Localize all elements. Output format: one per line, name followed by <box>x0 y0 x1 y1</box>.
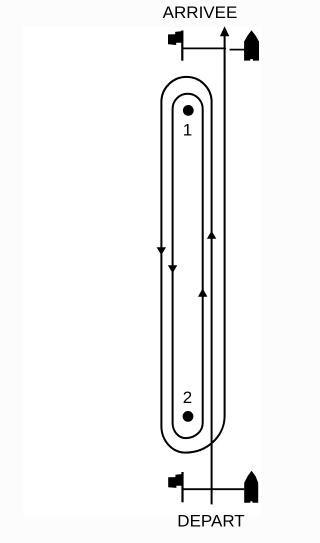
finish pin flag pole <box>181 31 183 61</box>
mark 1 (buoy dot) <box>183 105 194 116</box>
arrow up to finish (on finish approach line) <box>220 26 229 36</box>
outer course path: beat line up, arc around mark 1, run down, arc around mark 2, approach to finish <box>161 36 224 505</box>
start line <box>183 488 245 490</box>
finish line (left segment, pin to course line) <box>182 47 226 49</box>
arrow down on inner loop left <box>168 265 177 273</box>
finish pin flag <box>168 31 183 45</box>
arrow down on outer run (left) <box>157 247 166 255</box>
inner lap loop (stadium) <box>173 94 203 438</box>
finish line (right segment, to committee boat) <box>230 49 245 51</box>
start pin flag pole <box>181 472 183 502</box>
arrow up on beat line <box>207 231 216 239</box>
svg-text:DEPART: DEPART <box>177 511 244 530</box>
svg-text:ARRIVEE: ARRIVEE <box>163 3 238 22</box>
svg-text:2: 2 <box>183 388 192 407</box>
committee boat (finish) <box>244 30 259 60</box>
committee boat (start) <box>244 471 258 503</box>
arrow up on inner loop right <box>198 288 207 296</box>
mark 2 (buoy dot) <box>183 411 194 422</box>
start pin flag <box>168 474 183 488</box>
svg-text:1: 1 <box>183 120 192 139</box>
white drawing area over off-white scan margin <box>23 27 261 516</box>
